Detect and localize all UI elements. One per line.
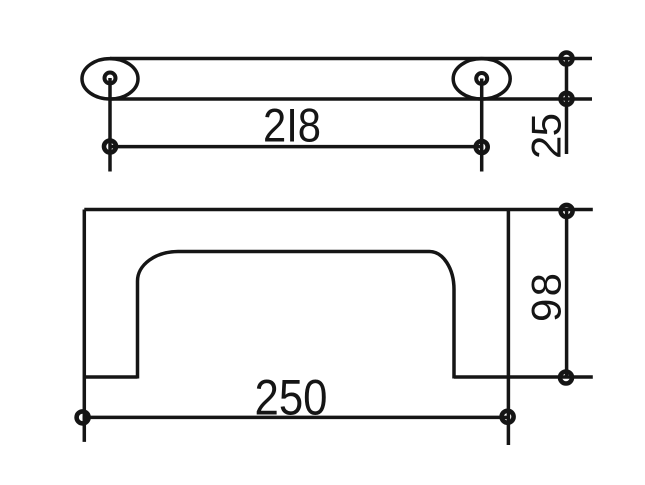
svg-text:250: 250 — [255, 370, 328, 426]
svg-text:25: 25 — [523, 113, 570, 159]
svg-text:2I8: 2I8 — [263, 99, 321, 152]
